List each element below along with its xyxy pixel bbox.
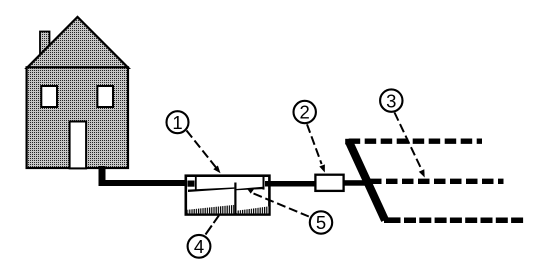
outlet pipe tank to distribution box (265, 181, 315, 187)
tank inlet stub (188, 181, 195, 187)
svg-text:5: 5 (316, 212, 326, 233)
manifold bottom stub (384, 217, 401, 223)
tank center divider (234, 183, 236, 214)
leach field lateral bottom (404, 217, 524, 223)
water level marker triangle (247, 188, 255, 193)
sludge left compartment (187, 205, 234, 214)
house roof (27, 17, 128, 68)
callout circle 3 (380, 89, 402, 111)
callout circle 1 (167, 111, 189, 133)
right window (97, 86, 113, 107)
leader line 3 (395, 113, 422, 171)
leader line 1 (187, 131, 217, 168)
main sewer pipe house to tank (99, 180, 188, 186)
leader line 2 (307, 124, 322, 164)
leader line 5 (254, 194, 309, 217)
arrowhead 3 (419, 169, 425, 177)
svg-text:4: 4 (194, 236, 204, 257)
callout circle 4 (188, 235, 211, 258)
chimney (40, 32, 50, 58)
pipe box to manifold (345, 180, 370, 186)
manifold header pipe (349, 142, 385, 221)
svg-text:3: 3 (386, 90, 396, 111)
arrowhead 1 (213, 166, 220, 174)
svg-text:1: 1 (172, 112, 182, 133)
distribution box (315, 175, 343, 191)
septic tank outer shell (186, 176, 270, 215)
callout circle 5 (310, 211, 332, 233)
house body (27, 67, 128, 168)
leach field lateral top (349, 138, 482, 143)
scum layer right compartment (236, 187, 263, 191)
inlet baffle (195, 177, 197, 190)
manifold top stub (345, 139, 352, 145)
leach field lateral middle (370, 179, 504, 184)
leader line 4 (206, 215, 220, 234)
callout circle 2 (294, 101, 316, 123)
door (70, 122, 87, 169)
outlet baffle (263, 177, 265, 190)
svg-text:2: 2 (300, 102, 310, 123)
sludge right compartment (237, 206, 269, 213)
vertical drain pipe from house (99, 166, 106, 186)
left window (41, 86, 57, 107)
scum layer left compartment (188, 187, 234, 192)
arrowhead 2 (319, 164, 325, 172)
